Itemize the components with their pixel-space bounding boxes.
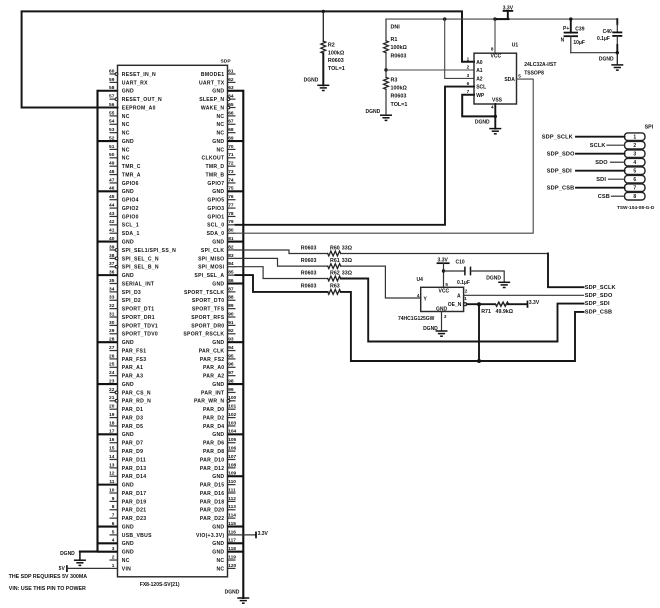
power 3.3V (VIO pin 116) xyxy=(256,531,269,539)
svg-text:GPIO6: GPIO6 xyxy=(122,181,139,187)
svg-text:3.3V: 3.3V xyxy=(258,531,269,537)
pin 108 PAR_D12 (right) xyxy=(200,462,237,472)
svg-text:GND: GND xyxy=(212,139,224,145)
wire SCL_0 net (U1 SCL to pin 79) xyxy=(236,87,475,225)
svg-text:NC: NC xyxy=(122,558,130,564)
svg-text:PAR_A0: PAR_A0 xyxy=(203,365,224,371)
svg-text:107: 107 xyxy=(228,454,236,460)
svg-text:SPI_SEL_C_N: SPI_SEL_C_N xyxy=(122,256,159,262)
pin 100 PAR_WR_N (right) xyxy=(194,395,237,405)
pin 90 SPORT_RFS (right) xyxy=(191,311,235,321)
svg-text:100kΩ: 100kΩ xyxy=(328,50,345,56)
svg-text:PAR_D18: PAR_D18 xyxy=(200,499,225,505)
svg-text:25: 25 xyxy=(109,362,115,368)
svg-text:GPIO2: GPIO2 xyxy=(122,206,139,212)
pin 68 NC (right) xyxy=(216,127,235,137)
svg-text:110: 110 xyxy=(228,479,236,485)
svg-text:VIN: VIN xyxy=(122,566,131,572)
pin 75 GND (right) xyxy=(212,186,243,196)
svg-text:46: 46 xyxy=(109,186,115,192)
svg-text:PAR_D19: PAR_D19 xyxy=(122,499,147,505)
svg-text:32: 32 xyxy=(109,303,115,309)
svg-text:71: 71 xyxy=(228,152,234,158)
svg-text:113: 113 xyxy=(228,504,236,510)
svg-text:45: 45 xyxy=(109,194,115,200)
pin 6 GND (left) xyxy=(98,521,135,531)
svg-text:PAR_D20: PAR_D20 xyxy=(200,508,225,514)
pin 50 NC (left) xyxy=(109,152,130,162)
svg-text:RESET_OUT_N: RESET_OUT_N xyxy=(122,97,162,103)
connector pin 1 SDP_SCLK xyxy=(542,133,645,141)
power 3.3V (R71 pullup) xyxy=(528,300,540,308)
svg-text:SDP_SDI: SDP_SDI xyxy=(547,168,572,174)
svg-text:PAR_D23: PAR_D23 xyxy=(122,516,147,522)
pin 89 SPORT_TFS (right) xyxy=(192,303,236,313)
pin 91 SPORT_DR0 (right) xyxy=(191,320,235,330)
svg-text:DGND: DGND xyxy=(304,78,319,84)
svg-text:2: 2 xyxy=(633,143,636,149)
svg-text:GND: GND xyxy=(122,483,134,489)
svg-text:73: 73 xyxy=(228,169,234,175)
pin 38 SPI_SEL_C_N (left) xyxy=(109,253,159,263)
svg-text:33Ω: 33Ω xyxy=(342,245,353,251)
svg-text:102: 102 xyxy=(228,412,236,418)
wire SPI_SEL_A (pin 85 to R63) xyxy=(236,275,328,292)
svg-text:R0603: R0603 xyxy=(328,58,344,64)
svg-text:76: 76 xyxy=(228,194,234,200)
svg-text:8: 8 xyxy=(491,47,494,52)
pin 18 PAR_D5 (left) xyxy=(109,420,143,430)
svg-text:PAR_D14: PAR_D14 xyxy=(122,474,147,480)
svg-text:67: 67 xyxy=(228,119,234,125)
svg-text:NC: NC xyxy=(216,131,224,137)
svg-text:26: 26 xyxy=(109,353,115,359)
svg-text:GND: GND xyxy=(122,524,134,530)
svg-text:89: 89 xyxy=(228,303,234,309)
svg-text:GND: GND xyxy=(212,382,224,388)
svg-text:5V: 5V xyxy=(59,566,66,572)
pin 99 PAR_INT (right) xyxy=(201,387,235,397)
svg-text:7: 7 xyxy=(467,89,470,94)
pin 70 NC (right) xyxy=(216,144,235,154)
svg-text:19: 19 xyxy=(109,412,115,418)
junction C40 / ground drop xyxy=(616,51,619,54)
svg-text:PAR_D8: PAR_D8 xyxy=(203,449,224,455)
svg-text:TOL=1: TOL=1 xyxy=(328,66,345,72)
svg-text:R60: R60 xyxy=(330,245,340,251)
pin 25 PAR_A1 (left) xyxy=(109,362,143,372)
pin 94 PAR_CLK (right) xyxy=(199,345,236,355)
svg-text:NC: NC xyxy=(122,114,130,120)
svg-text:84: 84 xyxy=(228,261,234,267)
svg-text:96: 96 xyxy=(228,362,234,368)
svg-text:GND: GND xyxy=(122,340,134,346)
svg-text:12: 12 xyxy=(109,471,115,477)
svg-text:83: 83 xyxy=(228,253,234,259)
svg-text:GND: GND xyxy=(122,139,134,145)
svg-text:PAR_CS_N: PAR_CS_N xyxy=(122,390,151,396)
svg-text:36: 36 xyxy=(109,270,115,276)
pin 93 GND (right) xyxy=(212,337,243,347)
pin 29 SPORT_TDV0 (left) xyxy=(109,328,158,338)
power 5V xyxy=(59,565,67,572)
svg-text:98: 98 xyxy=(228,378,234,384)
svg-text:SPORT_RSCLK: SPORT_RSCLK xyxy=(183,332,224,338)
pin 24 PAR_A3 (left) xyxy=(109,370,143,380)
svg-text:SCL_1: SCL_1 xyxy=(122,223,139,229)
pin 41 SDA_1 (left) xyxy=(109,228,140,238)
svg-text:SPORT_RFS: SPORT_RFS xyxy=(191,315,224,321)
pin 37 SPI_SEL_B_N (left) xyxy=(109,261,159,271)
svg-text:PAR_WR_N: PAR_WR_N xyxy=(194,399,224,405)
svg-text:R2: R2 xyxy=(328,42,335,48)
svg-text:SPORT_DR0: SPORT_DR0 xyxy=(191,323,224,329)
svg-text:SLEEP_N: SLEEP_N xyxy=(199,97,224,103)
pin 101 PAR_D0 (right) xyxy=(203,404,237,414)
svg-text:97: 97 xyxy=(228,370,234,376)
svg-text:TSW-104-08-G-D: TSW-104-08-G-D xyxy=(617,205,655,211)
pin 113 PAR_D20 (right) xyxy=(200,504,236,514)
pin 27 PAR_FS1 (left) xyxy=(109,345,146,355)
svg-text:48: 48 xyxy=(109,169,115,175)
wire WP to DGND xyxy=(462,95,495,117)
svg-text:3.3V: 3.3V xyxy=(529,300,540,306)
U4 OE_N bubble xyxy=(464,303,467,306)
svg-text:80: 80 xyxy=(228,228,234,234)
svg-text:SDA_1: SDA_1 xyxy=(122,231,140,237)
wire 5V to VIN pin 1 xyxy=(67,567,110,569)
resistor R60 33ohm xyxy=(301,245,353,256)
pin 42 SCL_1 (left) xyxy=(109,219,139,229)
junction 3.3V rail / U1 VCC xyxy=(493,17,496,20)
svg-text:R0603: R0603 xyxy=(391,94,407,100)
svg-text:VCC: VCC xyxy=(491,54,502,60)
svg-text:20: 20 xyxy=(109,404,115,410)
svg-text:SPORT_TFS: SPORT_TFS xyxy=(192,307,225,313)
svg-text:GND: GND xyxy=(122,382,134,388)
resistor R61 33ohm xyxy=(301,258,353,269)
svg-text:SDI: SDI xyxy=(596,177,606,183)
svg-text:24LC32A-I/ST: 24LC32A-I/ST xyxy=(524,62,556,68)
svg-text:4: 4 xyxy=(417,293,420,298)
svg-text:SPORT_TSCLK: SPORT_TSCLK xyxy=(184,290,224,296)
svg-text:SDP_SDO: SDP_SDO xyxy=(585,293,613,299)
svg-text:42: 42 xyxy=(109,219,115,225)
pin 107 PAR_D10 (right) xyxy=(200,454,237,464)
svg-text:62: 62 xyxy=(228,77,234,83)
wire A2 net (3.3V to U1 A2) xyxy=(445,19,474,78)
svg-text:85: 85 xyxy=(228,270,234,276)
svg-text:C10: C10 xyxy=(456,260,465,266)
svg-text:3: 3 xyxy=(633,152,636,158)
svg-text:72: 72 xyxy=(228,161,234,167)
svg-text:106: 106 xyxy=(228,446,236,452)
IC U_SDP body FX8-120S-SV(21) xyxy=(118,58,232,588)
svg-text:3: 3 xyxy=(467,73,470,78)
svg-text:22: 22 xyxy=(109,387,115,393)
wire R71 to 3.3V xyxy=(508,303,527,305)
svg-text:UART_TX: UART_TX xyxy=(199,80,225,86)
svg-text:57: 57 xyxy=(109,94,115,100)
svg-text:VSS: VSS xyxy=(492,97,503,103)
svg-text:PAR_D11: PAR_D11 xyxy=(122,457,146,463)
svg-text:3.3V: 3.3V xyxy=(503,6,514,12)
svg-text:UART_RX: UART_RX xyxy=(122,80,148,86)
svg-text:105: 105 xyxy=(228,437,236,443)
svg-text:3: 3 xyxy=(112,546,115,552)
svg-text:R71: R71 xyxy=(481,309,491,315)
pin 35 SERIAL_INT (left) xyxy=(109,278,155,288)
pin 14 PAR_D11 (left) xyxy=(109,454,146,464)
svg-text:81: 81 xyxy=(228,236,234,242)
svg-text:6: 6 xyxy=(467,81,470,86)
svg-text:13: 13 xyxy=(109,462,115,468)
svg-text:PAR_A2: PAR_A2 xyxy=(203,374,224,380)
svg-text:GND: GND xyxy=(212,281,224,287)
pin 9 PAR_D19 (left) xyxy=(110,496,147,506)
connector pin 6 SDI xyxy=(596,175,645,183)
pin 4 GND (left) xyxy=(98,538,135,548)
svg-text:112: 112 xyxy=(228,496,236,502)
ground DGND (left bus) xyxy=(60,551,86,565)
pin 65 WAKE_N (right) xyxy=(201,102,236,112)
svg-text:NC: NC xyxy=(216,114,224,120)
pin 23 GND (left) xyxy=(98,378,135,388)
svg-text:GND: GND xyxy=(212,524,224,530)
svg-text:R0603: R0603 xyxy=(391,53,407,59)
pin 33 SPI_D2 (left) xyxy=(109,295,141,305)
svg-text:USB_VBUS: USB_VBUS xyxy=(122,533,152,539)
svg-text:70: 70 xyxy=(228,144,234,150)
svg-text:VIO(+3.3V): VIO(+3.3V) xyxy=(196,533,224,539)
svg-text:PAR_FS1: PAR_FS1 xyxy=(122,348,147,354)
svg-text:SDP_SDI: SDP_SDI xyxy=(585,301,610,307)
svg-text:GPIO3: GPIO3 xyxy=(207,206,224,212)
svg-text:92: 92 xyxy=(228,328,234,334)
pin 102 PAR_D2 (right) xyxy=(203,412,237,422)
svg-text:16: 16 xyxy=(109,437,115,443)
pin 56 EEPROM_A0 (left) xyxy=(109,102,156,112)
svg-text:R0603: R0603 xyxy=(301,245,317,251)
svg-text:PAR_D2: PAR_D2 xyxy=(203,415,224,421)
svg-text:86: 86 xyxy=(228,278,234,284)
pin 104 GND (right) xyxy=(212,429,243,439)
svg-text:SPI_SEL_B_N: SPI_SEL_B_N xyxy=(122,265,159,271)
svg-text:THE SDP REQUIRES 5V 300MA: THE SDP REQUIRES 5V 300MA xyxy=(9,574,88,580)
svg-text:PAR_D22: PAR_D22 xyxy=(200,516,225,522)
svg-text:GND: GND xyxy=(212,240,224,246)
svg-text:50: 50 xyxy=(109,152,115,158)
svg-text:WAKE_N: WAKE_N xyxy=(201,105,225,111)
wire OE_N to R71 xyxy=(467,303,495,305)
pin 43 GPIO0 (left) xyxy=(109,211,139,221)
svg-text:SDA_0: SDA_0 xyxy=(207,231,225,237)
pin 20 PAR_D1 (left) xyxy=(109,404,143,414)
svg-text:61: 61 xyxy=(228,68,234,74)
junction OE_N wire xyxy=(477,302,481,306)
pin 11 GND (left) xyxy=(98,479,135,489)
pin 84 SPI_MOSI (right) xyxy=(198,261,235,271)
svg-text:WP: WP xyxy=(476,93,485,99)
wire SDP_SDO net (U4 A to label) xyxy=(464,294,584,296)
svg-text:108: 108 xyxy=(228,462,236,468)
svg-text:GPIO4: GPIO4 xyxy=(122,198,139,204)
svg-text:18: 18 xyxy=(109,420,115,426)
svg-text:43: 43 xyxy=(109,211,115,217)
pin 78 GPIO1 (right) xyxy=(207,211,235,221)
pin 45 GPIO4 (left) xyxy=(109,194,139,204)
pin 16 PAR_D7 (left) xyxy=(109,437,143,447)
svg-text:100kΩ: 100kΩ xyxy=(391,45,408,51)
svg-text:TMR_A: TMR_A xyxy=(122,172,141,178)
pin 73 TMR_B (right) xyxy=(205,169,235,179)
pin 36 GND (left) xyxy=(98,270,135,280)
junction 3.3V rail / A2 branch xyxy=(443,17,446,20)
svg-text:77: 77 xyxy=(228,202,234,208)
svg-text:PAR_D16: PAR_D16 xyxy=(200,491,225,497)
svg-text:R63: R63 xyxy=(330,284,340,290)
svg-text:PAR_RD_N: PAR_RD_N xyxy=(122,399,151,405)
svg-text:11: 11 xyxy=(109,479,114,485)
svg-text:41: 41 xyxy=(109,228,115,234)
svg-text:2: 2 xyxy=(112,554,115,560)
svg-text:SPORT_TDV0: SPORT_TDV0 xyxy=(122,332,158,338)
svg-text:U4: U4 xyxy=(417,277,424,283)
pin 7 PAR_D23 (left) xyxy=(110,513,147,523)
svg-text:DGND: DGND xyxy=(225,589,240,595)
pin 69 GND (right) xyxy=(212,135,243,145)
connector pin 4 SDO xyxy=(595,158,645,166)
pin 76 GPIO5 (right) xyxy=(207,194,235,204)
svg-text:C40: C40 xyxy=(603,29,612,35)
svg-text:PAR_CLK: PAR_CLK xyxy=(199,348,225,354)
svg-text:59: 59 xyxy=(109,77,115,83)
pin 61 BMODE1 (right) xyxy=(201,68,236,78)
svg-text:SPI_D3: SPI_D3 xyxy=(122,290,141,296)
svg-text:NC: NC xyxy=(122,156,130,162)
svg-text:1: 1 xyxy=(112,563,115,569)
pin 117 GND (right) xyxy=(212,538,243,548)
svg-text:DGND: DGND xyxy=(60,551,75,557)
pin 12 PAR_D14 (left) xyxy=(109,471,146,481)
pin 57 RESET_OUT_N (left) xyxy=(109,94,162,104)
wire VIO(+3.3V) pin 116 xyxy=(236,534,257,536)
svg-text:GND: GND xyxy=(122,550,134,556)
pin 63 GND (right) xyxy=(212,85,243,95)
svg-text:29: 29 xyxy=(109,328,115,334)
pin 74 GPIO7 (right) xyxy=(207,177,235,187)
pin 92 SPORT_RSCLK (right) xyxy=(183,328,235,338)
svg-text:27: 27 xyxy=(109,345,115,351)
pin 10 PAR_D17 (left) xyxy=(109,487,146,497)
svg-text:2: 2 xyxy=(467,65,470,70)
svg-text:TOL=1: TOL=1 xyxy=(391,102,408,108)
junction VSS / WP xyxy=(494,115,497,118)
svg-text:SCL_0: SCL_0 xyxy=(207,223,224,229)
svg-text:VCC: VCC xyxy=(439,289,450,295)
pin 111 PAR_D16 (right) xyxy=(200,487,236,497)
svg-text:VIN: USE THIS PIN TO POWER: VIN: USE THIS PIN TO POWER xyxy=(9,586,86,592)
svg-text:SPI_SEL1/SPI_SS_N: SPI_SEL1/SPI_SS_N xyxy=(122,248,176,254)
svg-text:SPI_SEL_A: SPI_SEL_A xyxy=(194,273,224,279)
svg-text:120: 120 xyxy=(228,563,236,569)
svg-text:93: 93 xyxy=(228,337,234,343)
wire R61 to U4 Y output xyxy=(341,266,421,298)
svg-text:NC: NC xyxy=(216,147,224,153)
svg-text:49: 49 xyxy=(109,161,115,167)
pin 112 PAR_D18 (right) xyxy=(200,496,236,506)
wire right DGND bus xyxy=(242,91,244,598)
pin 119 NC (right) xyxy=(216,554,236,564)
svg-text:RESET_IN_N: RESET_IN_N xyxy=(122,72,156,78)
wire U4 GND stub xyxy=(441,312,443,332)
svg-text:2: 2 xyxy=(465,289,468,294)
svg-text:NC: NC xyxy=(122,122,130,128)
svg-text:PAR_FS3: PAR_FS3 xyxy=(122,357,147,363)
svg-text:SPI_MISO: SPI_MISO xyxy=(198,256,224,262)
pin 83 SPI_MISO (right) xyxy=(198,253,235,263)
pin 80 SDA_0 (right) xyxy=(207,228,236,238)
wire SDP_SDI net (R62 to label) xyxy=(341,279,584,342)
svg-text:31: 31 xyxy=(109,311,115,317)
svg-text:8: 8 xyxy=(112,504,115,510)
svg-text:111: 111 xyxy=(228,487,236,493)
svg-text:PAR_D4: PAR_D4 xyxy=(203,424,224,430)
pin 48 TMR_A (left) xyxy=(109,169,141,179)
pin 105 PAR_D6 (right) xyxy=(203,437,237,447)
svg-text:39: 39 xyxy=(109,244,115,250)
svg-text:PAR_D9: PAR_D9 xyxy=(122,449,143,455)
svg-text:PAR_D7: PAR_D7 xyxy=(122,441,143,447)
pin 60 RESET_IN_N (left) xyxy=(109,68,156,78)
pin 95 PAR_FS2 (right) xyxy=(200,353,236,363)
svg-text:P+: P+ xyxy=(563,26,569,32)
resistor R62 33ohm xyxy=(301,270,353,281)
svg-text:GND: GND xyxy=(212,474,224,480)
pin 32 SPORT_DT1 (left) xyxy=(109,303,154,313)
resistor R1 100k (DNI) xyxy=(384,19,408,70)
pin 97 PAR_A2 (right) xyxy=(203,370,236,380)
svg-text:PAR_D5: PAR_D5 xyxy=(122,424,143,430)
pin 118 GND (right) xyxy=(212,546,243,556)
pin 1 VIN (left) xyxy=(110,563,132,573)
svg-text:SPORT_DT1: SPORT_DT1 xyxy=(122,307,155,313)
svg-text:33Ω: 33Ω xyxy=(342,270,353,276)
svg-text:PAR_A3: PAR_A3 xyxy=(122,374,143,380)
svg-text:51: 51 xyxy=(109,144,115,150)
svg-text:4: 4 xyxy=(633,160,636,166)
svg-text:NC: NC xyxy=(216,558,224,564)
pin 58 GND (left) xyxy=(98,85,135,95)
svg-text:GND: GND xyxy=(212,189,224,195)
pin 21 PAR_RD_N (left) xyxy=(109,395,151,405)
svg-text:47: 47 xyxy=(109,177,115,183)
svg-text:GND: GND xyxy=(122,273,134,279)
svg-text:GPIO1: GPIO1 xyxy=(207,214,224,220)
pin 87 SPORT_TSCLK (right) xyxy=(184,286,236,296)
svg-text:PAR_D6: PAR_D6 xyxy=(203,441,224,447)
svg-text:63: 63 xyxy=(228,85,234,91)
svg-text:SPORT_DR1: SPORT_DR1 xyxy=(122,315,155,321)
pin 39 SPI_SEL1/SPI_SS_N (left) xyxy=(109,244,176,254)
junction R1/R3/A1 xyxy=(384,68,387,71)
svg-text:GND: GND xyxy=(122,189,134,195)
svg-text:28: 28 xyxy=(109,337,115,343)
svg-text:DGND: DGND xyxy=(423,326,438,332)
svg-text:119: 119 xyxy=(228,554,236,560)
svg-text:6: 6 xyxy=(633,177,636,183)
pin 17 GND (left) xyxy=(98,429,135,439)
